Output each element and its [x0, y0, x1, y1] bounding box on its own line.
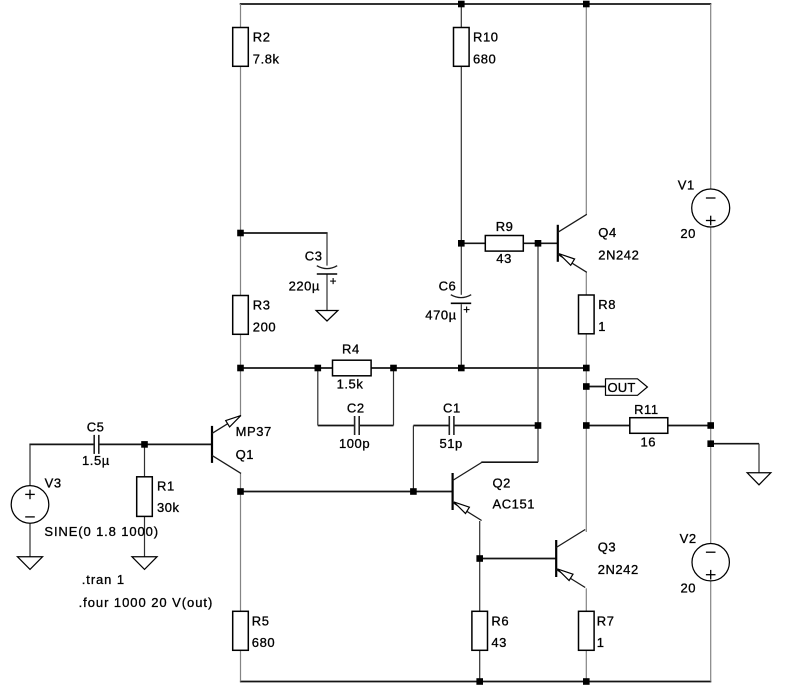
svg-text:+: +: [463, 305, 470, 317]
svg-text:R2: R2: [253, 30, 271, 45]
svg-text:30k: 30k: [157, 500, 180, 515]
svg-text:C3: C3: [305, 248, 323, 263]
svg-text:680: 680: [473, 52, 496, 67]
svg-text:680: 680: [252, 635, 275, 650]
svg-text:Q2: Q2: [493, 476, 511, 491]
svg-text:51p: 51p: [440, 436, 463, 451]
svg-text:C6: C6: [439, 278, 457, 293]
svg-text:2N242: 2N242: [598, 562, 639, 577]
svg-text:470µ: 470µ: [425, 308, 456, 323]
svg-text:SINE(0 1.8 1000): SINE(0 1.8 1000): [44, 524, 159, 539]
svg-text:+: +: [330, 276, 337, 288]
svg-text:1: 1: [597, 635, 605, 650]
svg-text:Q1: Q1: [236, 447, 254, 462]
svg-text:1.5µ: 1.5µ: [82, 453, 110, 468]
svg-text:1.5k: 1.5k: [337, 376, 364, 391]
svg-text:16: 16: [641, 435, 657, 450]
svg-text:R1: R1: [157, 478, 175, 493]
svg-text:MP37: MP37: [236, 424, 272, 439]
svg-text:20: 20: [680, 226, 696, 241]
svg-text:.four 1000 20 V(out): .four 1000 20 V(out): [79, 595, 214, 610]
svg-text:AC151: AC151: [493, 496, 536, 511]
svg-text:200: 200: [253, 320, 276, 335]
svg-text:OUT: OUT: [608, 380, 636, 395]
svg-text:R6: R6: [491, 613, 509, 628]
svg-text:100p: 100p: [339, 436, 370, 451]
svg-text:R5: R5: [252, 613, 270, 628]
svg-text:7.8k: 7.8k: [253, 52, 280, 67]
svg-text:R11: R11: [634, 402, 659, 417]
svg-text:220µ: 220µ: [289, 278, 320, 293]
svg-text:R7: R7: [597, 613, 615, 628]
svg-text:C1: C1: [443, 400, 461, 415]
svg-text:43: 43: [496, 251, 512, 266]
svg-text:2N242: 2N242: [598, 247, 639, 262]
svg-text:1: 1: [598, 319, 606, 334]
svg-text:20: 20: [681, 581, 697, 596]
svg-text:V1: V1: [678, 178, 695, 193]
svg-text:V3: V3: [45, 476, 62, 491]
svg-text:V2: V2: [680, 531, 697, 546]
svg-text:43: 43: [491, 635, 507, 650]
svg-text:R8: R8: [598, 297, 616, 312]
svg-text:R4: R4: [342, 342, 360, 357]
svg-text:C2: C2: [347, 400, 365, 415]
svg-text:R3: R3: [253, 298, 271, 313]
svg-text:R10: R10: [473, 30, 499, 45]
svg-text:.tran 1: .tran 1: [82, 572, 125, 587]
svg-text:Q4: Q4: [598, 225, 616, 240]
svg-text:R9: R9: [496, 219, 514, 234]
svg-text:C5: C5: [87, 419, 105, 434]
svg-text:Q3: Q3: [598, 540, 616, 555]
